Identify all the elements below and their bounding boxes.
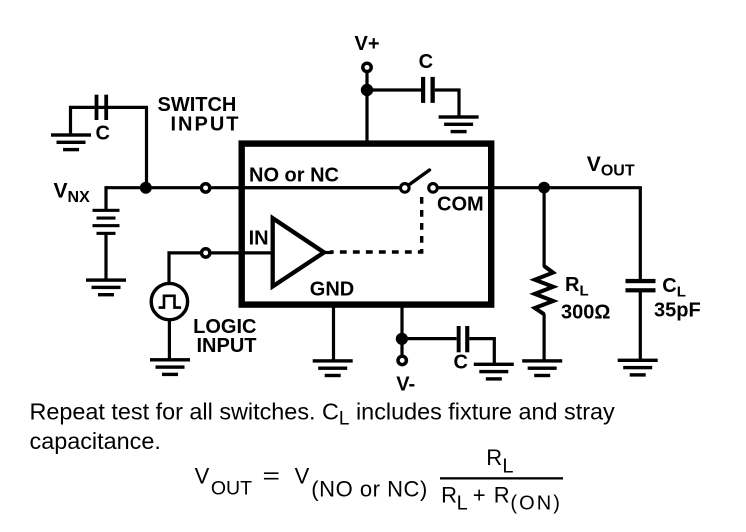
label C (V+ bypass): [419, 51, 433, 73]
capacitor C (V+ bypass): [421, 77, 435, 103]
wire pulse source to ground: [168, 320, 171, 359]
svg-text:+: +: [473, 482, 486, 507]
svg-text:L: L: [457, 493, 468, 515]
ground (RL): [522, 359, 562, 377]
wire COM output to VOUT corner and down to CL: [437, 188, 640, 280]
note text line 2: [30, 428, 161, 454]
svg-text:INPUT: INPUT: [171, 113, 239, 135]
battery VNX: [93, 209, 120, 235]
label 300 ohm: [561, 301, 610, 323]
svg-text:R: R: [486, 445, 502, 470]
wire V- junction to bypass cap: [402, 337, 457, 340]
wire battery to ground: [104, 234, 107, 280]
label IN: [249, 227, 269, 249]
label GND: [310, 279, 354, 301]
wire NO/NC input net: [106, 186, 400, 189]
wire NO/NC inside box redrawn over border: [244, 186, 400, 189]
equation VOUT = V(NO or NC): [195, 463, 428, 501]
label RL: [565, 274, 589, 300]
terminal IN (logic input): [202, 249, 210, 257]
svg-text:INPUT: INPUT: [197, 335, 257, 357]
wire GND pin to ground: [332, 304, 335, 360]
ground (logic input source): [150, 358, 190, 376]
svg-text:V: V: [295, 463, 310, 488]
wire CL bottom to ground: [639, 292, 642, 360]
svg-text:NO or NC: NO or NC: [249, 165, 339, 187]
dashed control linkage from buffer to switch: [330, 197, 422, 252]
label C (V- bypass): [454, 351, 468, 373]
svg-text:capacitance.: capacitance.: [30, 428, 161, 454]
svg-text:L: L: [502, 455, 513, 477]
pulse generator (logic input source): [151, 283, 187, 319]
ground (GND pin): [313, 359, 353, 377]
junction dot (V-): [396, 333, 408, 345]
capacitor C (switch input bypass): [95, 95, 109, 120]
capacitor C (V- bypass): [457, 326, 470, 352]
label VOUT: [587, 153, 635, 180]
wire buffer apex stub: [322, 251, 333, 254]
svg-text:V+: V+: [355, 33, 380, 55]
switch S1 lever: [408, 170, 430, 186]
svg-text:C: C: [454, 351, 468, 373]
terminal V-: [398, 356, 406, 364]
svg-text:R: R: [441, 482, 457, 507]
svg-text:C: C: [96, 122, 110, 144]
wire VNX corner to battery: [104, 186, 107, 209]
svg-text:R: R: [494, 482, 510, 507]
wire logic input corner: [169, 251, 273, 283]
svg-text:GND: GND: [310, 279, 354, 301]
junction dot (VOUT / RL): [538, 182, 550, 194]
label V+: [355, 33, 380, 55]
svg-text:OUT: OUT: [211, 478, 252, 500]
terminal NO/NC input: [201, 184, 209, 192]
ground (V- bypass cap): [474, 363, 514, 381]
IC box U1 (device under test): [242, 144, 492, 305]
junction dot (V+): [361, 84, 373, 96]
svg-text:(NO or NC): (NO or NC): [311, 476, 427, 501]
label C (switch input bypass): [96, 122, 110, 144]
label 35pF: [654, 299, 701, 321]
buffer amplifier A1: [273, 218, 324, 286]
resistor RL: [535, 266, 553, 314]
ground (switch input bypass cap): [51, 133, 91, 151]
svg-text:COM: COM: [437, 193, 484, 215]
wire V- pin to terminal: [400, 304, 403, 356]
wire V+ bypass cap to ground: [435, 90, 459, 117]
equation fraction numerator RL: [486, 445, 513, 477]
svg-text:V-: V-: [396, 374, 415, 396]
svg-text:V: V: [195, 463, 210, 488]
junction dot (VNX / switch input): [140, 182, 152, 194]
equation fraction bar: [440, 477, 563, 479]
wire bypass cap C to ground (switch input side): [71, 107, 95, 134]
wire V+ junction to bypass cap: [367, 88, 421, 91]
switch S1 pivot contact: [401, 184, 410, 193]
terminal V+: [363, 63, 371, 71]
ground (CL): [618, 359, 658, 377]
label VNX: [54, 180, 91, 207]
label CL: [662, 275, 686, 301]
label NO or NC: [249, 165, 339, 187]
ground (battery VNX): [86, 278, 126, 296]
svg-text:=: =: [263, 463, 281, 488]
equation fraction denominator RL + R(ON): [441, 482, 560, 514]
label COM: [437, 193, 484, 215]
ground (V+ bypass cap): [439, 115, 479, 133]
wire V+ junction down to box: [365, 90, 368, 141]
capacitor CL (load): [626, 279, 656, 293]
wire V+ terminal to junction: [365, 70, 368, 90]
wire RL bottom to ground: [542, 314, 545, 361]
wire junction up to bypass cap C (switch input): [98, 107, 146, 189]
svg-text:IN: IN: [249, 227, 269, 249]
label SWITCH INPUT: [158, 94, 239, 135]
svg-text:300Ω: 300Ω: [561, 301, 610, 323]
switch S1 throw contact: [429, 184, 438, 193]
svg-text:C: C: [419, 51, 433, 73]
wire VOUT junction down to RL: [542, 188, 545, 267]
label LOGIC INPUT: [193, 316, 256, 357]
label V-: [396, 374, 415, 396]
wire V- bypass cap to ground: [469, 339, 494, 364]
svg-text:35pF: 35pF: [654, 299, 701, 321]
note text line 1: [30, 399, 616, 430]
